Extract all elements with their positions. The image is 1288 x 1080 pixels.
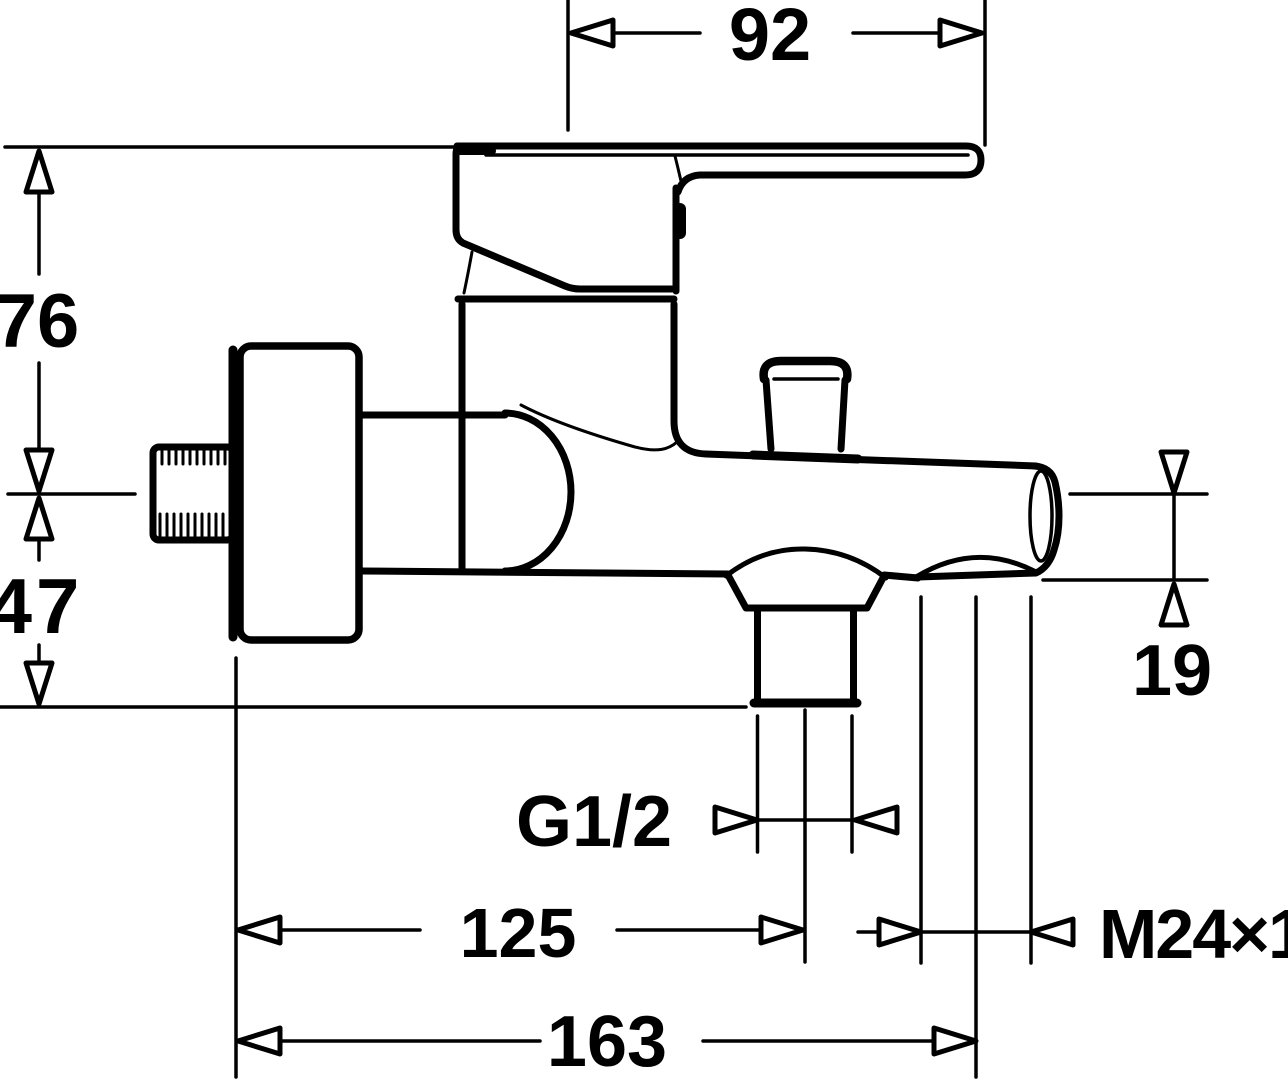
dimension 163 <box>238 1028 976 1054</box>
diverter knob sides <box>766 380 845 449</box>
reference line bottom (outlet plane) <box>0 705 746 709</box>
dimension 92 extension lines <box>568 0 985 145</box>
dimension 19 reference lines <box>1043 494 1207 580</box>
outlet centerline extension <box>803 710 807 962</box>
wall plane extension line <box>234 658 238 1077</box>
handle dome right edge <box>673 188 680 291</box>
reference line inlet axis <box>8 492 135 496</box>
thread ticks bottom <box>160 514 223 537</box>
lever neck thin curve <box>675 156 681 181</box>
dimension 125 <box>238 917 803 943</box>
dimension 47 line <box>26 498 52 704</box>
spout tip extension line <box>974 597 978 1077</box>
svg-text:125: 125 <box>460 894 577 972</box>
spout underside segment <box>884 575 918 578</box>
wall flange back line <box>229 350 238 637</box>
handle dome clip mark <box>674 209 686 233</box>
handle dome left outline <box>456 146 672 289</box>
handle lever left solid junction <box>457 147 492 155</box>
reference line top (handle top plane) <box>5 145 456 149</box>
aerator hump <box>916 557 1034 577</box>
collar line under handle <box>458 296 674 303</box>
dimension 92 line <box>571 20 982 46</box>
outlet hump <box>726 549 886 578</box>
spout outlet inner ellipse <box>1030 471 1052 561</box>
threaded nipple outline <box>153 447 233 540</box>
dimension M24x1 <box>858 919 1073 945</box>
outlet extension lines <box>758 716 853 852</box>
svg-text:76: 76 <box>0 279 79 364</box>
spout top thick segment under knob <box>753 455 858 459</box>
outlet trapezoid <box>728 575 884 608</box>
body top connector from flange <box>361 412 505 419</box>
handle lever outline <box>457 146 981 192</box>
outlet pipe bottom <box>754 699 857 708</box>
thread ticks top <box>162 450 225 464</box>
diverter knob cap <box>764 361 848 379</box>
aerator extension lines <box>921 597 1031 963</box>
wall flange rounded body <box>240 346 359 640</box>
svg-text:92: 92 <box>729 0 811 76</box>
dimension 76 line <box>26 151 52 491</box>
svg-text:47: 47 <box>0 562 83 650</box>
svg-text:19: 19 <box>1132 631 1212 711</box>
diverter knob inner line <box>774 377 838 381</box>
body bulge half-ellipse <box>505 413 571 571</box>
svg-text:M24×1: M24×1 <box>1099 895 1288 973</box>
cartridge column left edge <box>459 304 466 569</box>
handle dome front thin arc <box>464 252 472 293</box>
svg-text:163: 163 <box>547 1002 667 1080</box>
spout right end outline <box>918 466 1059 577</box>
outlet pipe sides <box>758 608 854 701</box>
dimension 19 <box>1161 452 1187 625</box>
cartridge column right edge into spout top <box>674 304 1036 466</box>
body bottom line <box>361 571 728 574</box>
handle lever inner line <box>486 153 968 157</box>
dimension G1/2 <box>715 807 897 833</box>
svg-text:G1/2: G1/2 <box>516 782 672 862</box>
body surface S-curve <box>521 405 677 450</box>
